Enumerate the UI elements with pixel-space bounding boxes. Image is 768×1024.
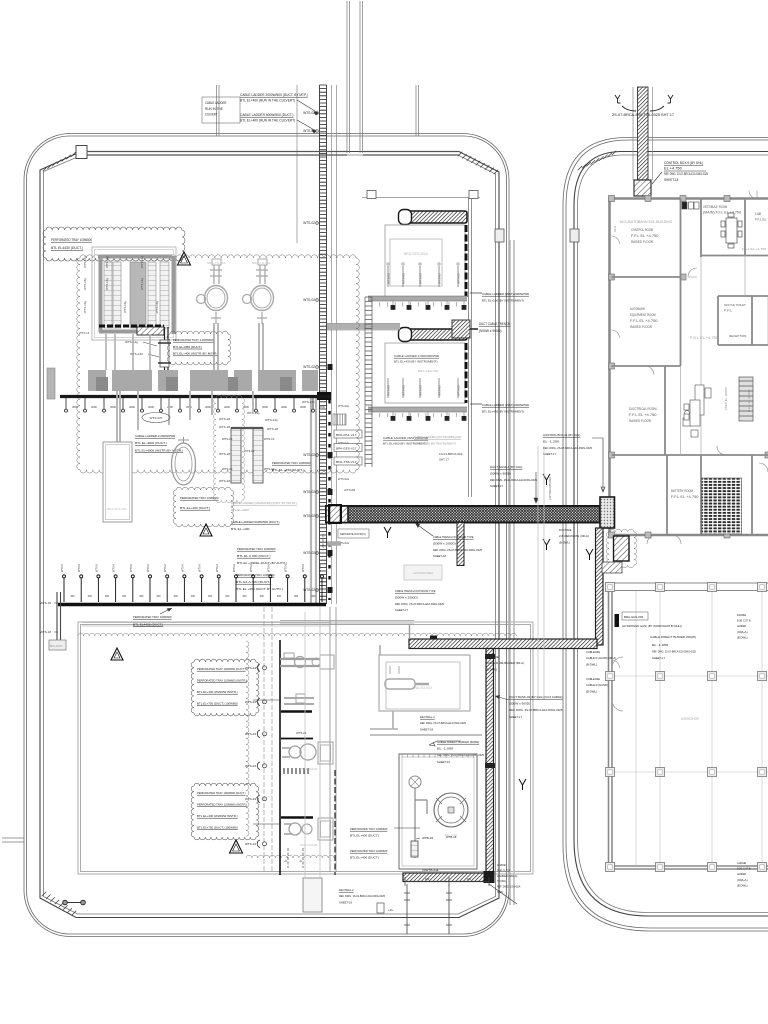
center column vertical ladder xyxy=(365,297,372,467)
svg-text:WTS-0: WTS-0 xyxy=(129,563,133,572)
svg-text:F.S.L EL +4.750: F.S.L EL +4.750 xyxy=(742,247,766,251)
svg-text:WTS-0: WTS-0 xyxy=(198,563,202,572)
svg-text:SHEET-17: SHEET-17 xyxy=(509,715,522,719)
pump assembly 4 with black bar xyxy=(281,816,313,819)
svg-text:BTL EL+100 (BY INSTRUMENT): BTL EL+100 (BY INSTRUMENT) xyxy=(482,299,524,303)
svg-text:CH/DIE: CH/DIE xyxy=(497,863,506,867)
tick row under room A tray xyxy=(372,302,457,307)
svg-text:WTS-14g: WTS-14g xyxy=(105,256,109,268)
gate approach lines xyxy=(305,612,320,878)
gray tray below room B xyxy=(368,407,467,412)
hatched ramp at workshop entry xyxy=(602,562,622,573)
gray arm right of ladder xyxy=(327,541,341,546)
svg-text:BTL EL+400 (W200/W INSTR.): BTL EL+400 (W200/W INSTR.) xyxy=(197,690,238,694)
svg-text:WTS-14p: WTS-14p xyxy=(302,400,315,404)
svg-text:H.V.A. EL. ROOM: H.V.A. EL. ROOM xyxy=(747,389,751,412)
svg-text:WTS-02: WTS-02 xyxy=(303,490,315,494)
stacked valve label boxes BPA xyxy=(334,430,362,438)
svg-text:300: 300 xyxy=(242,595,247,598)
svg-text:BTL EL A 300 (DUCT.): BTL EL A 300 (DUCT.) xyxy=(237,554,271,558)
fence post right xyxy=(495,229,504,242)
substation drops to tray band xyxy=(106,334,150,370)
svg-text:LAYDOWN AREA: LAYDOWN AREA xyxy=(413,571,433,575)
svg-text:(B DWL): (B DWL) xyxy=(737,635,748,639)
svg-text:2000: 2000 xyxy=(224,405,230,409)
pump BRA-TS-002 xyxy=(243,259,274,324)
vertical culvert lines from page top xyxy=(347,1,363,153)
room B cabinets xyxy=(387,378,391,398)
svg-text:BTL EL +400: BTL EL +400 xyxy=(231,527,250,531)
workshop interior grid lines xyxy=(612,591,768,866)
svg-text:SHEET-16: SHEET-16 xyxy=(437,760,450,764)
pond pump circle with piping xyxy=(409,776,427,858)
svg-text:SHEET-17: SHEET-17 xyxy=(652,656,665,660)
svg-text:300: 300 xyxy=(174,595,179,598)
warning triangle bottom column xyxy=(230,840,243,853)
warning triangle below cloud xyxy=(200,524,212,536)
svg-text:WTS-14d: WTS-14d xyxy=(130,352,143,356)
svg-text:2-W 500x4 (B) DWL: 2-W 500x4 (B) DWL xyxy=(548,476,552,500)
svg-text:WTS-0: WTS-0 xyxy=(301,563,305,572)
svg-text:CABLE DIRECT BURIED 200(W): CABLE DIRECT BURIED 200(W) xyxy=(650,635,696,639)
perforated tray 2-200 cloud label xyxy=(167,331,231,365)
svg-text:WTS-18: WTS-18 xyxy=(219,417,230,421)
ladder tray junction dark blob xyxy=(317,392,331,400)
hatched duct segment between rooms xyxy=(452,320,470,338)
svg-text:BTL EL +450 (DUCT.): BTL EL +450 (DUCT.) xyxy=(272,468,304,472)
cloud boundary around pump column xyxy=(246,641,249,836)
svg-text:CABLE DIRECT BURIED (600W): CABLE DIRECT BURIED (600W) xyxy=(437,740,479,744)
right fence corner hatch ticks xyxy=(578,151,616,170)
svg-text:WTS-14g: WTS-14g xyxy=(155,301,159,313)
svg-text:SHEET-18: SHEET-18 xyxy=(664,178,678,182)
svg-text:300: 300 xyxy=(70,595,75,598)
svg-text:400: 400 xyxy=(467,877,472,881)
gap roadway gray band between sites xyxy=(510,240,514,905)
svg-text:WTS-0: WTS-0 xyxy=(77,563,81,572)
svg-text:CONTROL ROOM: CONTROL ROOM xyxy=(631,228,653,232)
svg-text:BPA-PA1-V17: BPA-PA1-V17 xyxy=(336,433,357,437)
svg-text:CULVERT: CULVERT xyxy=(205,113,218,117)
room B cable ladder hatched bar xyxy=(399,328,468,342)
svg-text:2S-07-BRCA-E10-T06-0325 SHT 1: 2S-07-BRCA-E10-T06-0325 SHT 17 xyxy=(612,113,674,117)
svg-text:BTL EL+430 (BY INSTRUMENT): BTL EL+430 (BY INSTRUMENT) xyxy=(482,410,524,414)
BRA-GHS-003 labels xyxy=(622,612,648,620)
perforated tray cloud label left-low xyxy=(173,487,234,526)
svg-text:BTL EL+750 (DUCT.) 100W600: BTL EL+750 (DUCT.) 100W600 xyxy=(197,826,238,830)
svg-text:300: 300 xyxy=(191,595,196,598)
svg-text:PERFORATED TRAY 100W600: PERFORATED TRAY 100W600 xyxy=(237,547,276,551)
svg-text:WTS-02: WTS-02 xyxy=(303,129,315,133)
stairs block right edge xyxy=(739,377,753,421)
center column top line with posts xyxy=(362,197,480,199)
svg-text:WTS-0: WTS-0 xyxy=(215,563,219,572)
room A cabinets with WTS-03 labels xyxy=(387,263,391,287)
svg-text:WTS-14p: WTS-14p xyxy=(265,418,278,422)
svg-text:PERFORATED TRAY 100W600: PERFORATED TRAY 100W600 xyxy=(180,496,219,500)
main cable trench outdoor horizontal xyxy=(326,506,600,523)
svg-text:CABLE R (HAND) (3R-A): CABLE R (HAND) (3R-A) xyxy=(586,656,616,660)
substation hatched box xyxy=(137,327,164,335)
band-2 clamp mark xyxy=(430,636,437,642)
svg-text:F.F.L EL: F.F.L EL xyxy=(755,218,767,222)
svg-text:5: 5 xyxy=(299,860,303,862)
top-right hatched duct bank riser xyxy=(638,87,649,180)
perforated tray 4-line cloud label lower xyxy=(191,783,259,840)
svg-text:BRA-GES-002: BRA-GES-002 xyxy=(418,369,439,373)
svg-text:EQUIPMENT ROOM: EQUIPMENT ROOM xyxy=(630,313,656,317)
svg-text:WTS-0: WTS-0 xyxy=(112,563,116,572)
WTS-07b oval label xyxy=(142,413,170,423)
separate doors box xyxy=(338,529,369,538)
svg-text:CABLE LADDER (MIST)/2000W/500: CABLE LADDER (MIST)/2000W/500 xyxy=(482,292,529,296)
ladder heavy dash marks xyxy=(328,400,330,600)
svg-text:WTS-03: WTS-03 xyxy=(438,273,442,284)
battery room rack grid xyxy=(702,478,742,534)
vertical trench clamp marks xyxy=(485,654,495,659)
svg-text:F.F.L EL +4.750: F.F.L EL +4.750 xyxy=(629,413,657,417)
svg-text:300: 300 xyxy=(105,595,110,598)
svg-text:REF. DWG. 2S-07-BRCA-E10-DWG-0: REF. DWG. 2S-07-BRCA-E10-DWG-0325 xyxy=(652,649,696,653)
svg-text:(30A-A): (30A-A) xyxy=(737,878,748,882)
svg-text:CABLE LADDER 600W/500 (DUCT.): CABLE LADDER 600W/500 (DUCT.) xyxy=(231,520,280,524)
svg-text:(B DWL): (B DWL) xyxy=(586,662,597,666)
svg-text:CABLE TRENCH OUTDOOR TYPE: CABLE TRENCH OUTDOOR TYPE xyxy=(433,535,474,539)
svg-text:SHEET-17: SHEET-17 xyxy=(395,608,408,612)
svg-text:A/TS-06: A/TS-06 xyxy=(344,488,355,492)
drop lines below pond to boundary xyxy=(404,884,452,934)
svg-text:BATTERY ROOM: BATTERY ROOM xyxy=(671,489,693,493)
svg-text:REF. DWG. 2S-07-BRCA-E10-DWG-0: REF. DWG. 2S-07-BRCA-E10-DWG-0325 xyxy=(664,172,708,176)
svg-text:2000: 2000 xyxy=(148,405,154,409)
svg-text:CABLE TRENCH OUTDOOR TYPE: CABLE TRENCH OUTDOOR TYPE xyxy=(395,589,436,593)
svg-text:DUE CUT B: DUE CUT B xyxy=(497,868,510,872)
yard cloud line under tray xyxy=(78,633,516,636)
workshop column grid top row xyxy=(605,583,768,591)
svg-text:REF. DWG. 2S-01-BRCA-E10-DWG-0: REF. DWG. 2S-01-BRCA-E10-DWG-0325 xyxy=(490,478,537,482)
svg-text:REF. DWG. 2S-07-BRCA-E10-DWG-0: REF. DWG. 2S-07-BRCA-E10-DWG-0325 xyxy=(433,548,482,552)
svg-text:DH/DIE: DH/DIE xyxy=(737,613,746,617)
svg-text:WTS-03: WTS-03 xyxy=(402,273,406,284)
svg-text:WTS-0: WTS-0 xyxy=(94,563,98,572)
svg-text:PERFORATED TRAY 100W600: PERFORATED TRAY 100W600 xyxy=(350,849,388,853)
svg-text:WTS-24: WTS-24 xyxy=(245,732,256,736)
svg-text:BTL EL4450 (DUCT.): BTL EL4450 (DUCT.) xyxy=(173,345,202,349)
BRA-GHS-003 marker bar xyxy=(615,614,620,627)
vertical trench between junctions xyxy=(596,528,604,645)
tray band gray blocks xyxy=(88,370,106,391)
svg-text:BRA-TS-002: BRA-TS-002 xyxy=(252,261,271,265)
room BRA-SG-002 xyxy=(379,655,470,711)
gray piping left of room xyxy=(370,645,482,735)
pump drops to tray band xyxy=(214,323,263,370)
fence corner hatch ticks xyxy=(42,892,76,915)
svg-text:CABLE LADDER 2-2000W/500: CABLE LADDER 2-2000W/500 xyxy=(135,434,175,438)
laydown area box xyxy=(404,565,442,580)
center column fence lines xyxy=(469,198,472,497)
pump assembly 1 (gray) xyxy=(280,653,334,669)
fence post top-left xyxy=(76,146,87,159)
svg-text:WTS-02: WTS-02 xyxy=(303,514,315,518)
svg-text:REF. DWG. 2S-07-BRCA-E10-DWG-0: REF. DWG. 2S-07-BRCA-E10-DWG-0325 xyxy=(543,446,592,450)
vertical line x217 above site xyxy=(217,85,220,136)
svg-text:WTS-10: WTS-10 xyxy=(264,437,275,441)
svg-text:BTL EL+400 (DUCT.): BTL EL+400 (DUCT.) xyxy=(180,506,210,510)
svg-text:RAISED FLOOR: RAISED FLOOR xyxy=(630,325,652,329)
tray tick marks with circles xyxy=(65,398,315,412)
svg-text:EL -1.000: EL -1.000 xyxy=(437,747,454,751)
svg-text:61.9: 61.9 xyxy=(613,226,617,232)
south trench end cap xyxy=(484,871,495,883)
svg-text:CONTROL BOX-01 (BY DHL): CONTROL BOX-01 (BY DHL) xyxy=(543,433,580,437)
tray drops with anchor squares xyxy=(391,301,396,310)
svg-text:REF. DWG. 1S-01-BRCA-002-DWG-0: REF. DWG. 1S-01-BRCA-002-DWG-0325 xyxy=(339,894,385,898)
svg-text:2000: 2000 xyxy=(205,405,211,409)
svg-text:WTS-14g: WTS-14g xyxy=(83,278,87,290)
svg-text:GH/DHE: GH/DHE xyxy=(737,861,746,865)
svg-text:DE DWAL-4: DE DWAL-4 xyxy=(420,715,435,719)
svg-text:DUE CUT B: DUE CUT B xyxy=(737,619,751,623)
svg-text:WTB-18: WTB-18 xyxy=(422,836,433,840)
workshop walls xyxy=(605,591,768,869)
svg-text:WTS-0: WTS-0 xyxy=(180,563,184,572)
control box-04 hatched with cloud xyxy=(606,529,636,567)
door swing arcs xyxy=(612,191,768,669)
svg-text:PERFORATED TRAY 2-200W600: PERFORATED TRAY 2-200W600 xyxy=(173,338,214,342)
svg-text:BTL EL+400 (DUCT.): BTL EL+400 (DUCT.) xyxy=(350,833,379,837)
svg-text:DE DWAL-2: DE DWAL-2 xyxy=(339,888,354,892)
svg-text:PERFORATED TRAY 100W600: PERFORATED TRAY 100W600 xyxy=(236,573,275,577)
svg-text:WTS-0: WTS-0 xyxy=(284,563,288,572)
svg-text:PERFORATED TRAY 100W600: PERFORATED TRAY 100W600 xyxy=(133,615,172,619)
duct junction box-1 xyxy=(600,497,615,528)
svg-text:RECEPTION: RECEPTION xyxy=(729,334,746,338)
workshop left wall door arcs xyxy=(612,657,623,711)
svg-text:(B DWL): (B DWL) xyxy=(586,689,597,693)
svg-text:WTS-02a: WTS-02a xyxy=(338,477,350,481)
svg-text:BPA-GES-V17: BPA-GES-V17 xyxy=(336,446,357,450)
svg-text:DUCT/DIE: DUCT/DIE xyxy=(559,528,572,532)
gray line y621 from pumps to buried area xyxy=(280,621,414,625)
svg-text:CABLE LADDER 2-600/2000x500: CABLE LADDER 2-600/2000x500 xyxy=(394,354,439,358)
long perforated tray heavy line xyxy=(58,603,326,606)
main vertical cable ladder WTS-02 run xyxy=(320,85,327,604)
svg-text:(B-DWL): (B-DWL) xyxy=(559,540,570,544)
pump assembly 3 (gray circles) xyxy=(282,742,333,764)
pond small cabinet xyxy=(411,841,418,857)
control box-9 hatched xyxy=(634,180,651,196)
bottom hangers 5 xyxy=(287,848,289,868)
svg-text:(30A-A): (30A-A) xyxy=(737,630,748,634)
svg-text:WTS-03: WTS-03 xyxy=(457,273,461,284)
svg-text:WTS-07b: WTS-07b xyxy=(150,416,163,420)
svg-text:2-W 500 (B): 2-W 500 (B) xyxy=(321,534,325,548)
svg-text:PERFORATED TRAY 100W600 (DUCT.: PERFORATED TRAY 100W600 (DUCT.) xyxy=(197,791,246,795)
gray vertical drop at x409 xyxy=(409,624,411,639)
pump assembly 2 with black bar xyxy=(281,710,312,713)
svg-text:BTL EL +400/EL-DUCT (BY AUTO.): BTL EL +400/EL-DUCT (BY AUTO.) xyxy=(237,561,287,565)
svg-text:TA DWG: TA DWG xyxy=(497,879,506,883)
svg-text:2000: 2000 xyxy=(110,405,116,409)
svg-text:REF. DWG. 2S-07-BRCA-E10-DWG-0: REF. DWG. 2S-07-BRCA-E10-DWG-0325 xyxy=(509,708,563,712)
svg-text:WTS-02: WTS-02 xyxy=(303,551,315,555)
svg-text:WTS-18: WTS-18 xyxy=(267,427,278,431)
building interior thin lines xyxy=(681,255,768,455)
substation room outer xyxy=(92,247,176,340)
svg-text:F.F.L EL +4.750: F.F.L EL +4.750 xyxy=(631,234,659,238)
road stub left edge xyxy=(2,838,24,842)
svg-text:WTS-24: WTS-24 xyxy=(245,666,256,670)
svg-text:REF. DWG. 2S-07-BRCA-E13-DWG-0: REF. DWG. 2S-07-BRCA-E13-DWG-0325 xyxy=(420,721,466,725)
workshop columns xyxy=(606,583,615,592)
svg-text:2000: 2000 xyxy=(300,405,306,409)
svg-text:WTS-14g: WTS-14g xyxy=(83,301,87,313)
svg-text:(HYDROGEN GAS) (BY WORKSHOP B: (HYDROGEN GAS) (BY WORKSHOP B (DHL)) xyxy=(622,624,682,628)
svg-text:CABLE LADDER (INST/4GR8/E)/GR: CABLE LADDER (INST/4GR8/E)/GR xyxy=(414,435,462,439)
svg-text:PERFORATED TRAY 100W600 (DUCT.: PERFORATED TRAY 100W600 (DUCT.) xyxy=(197,667,246,671)
svg-text:BRA-GHS-003: BRA-GHS-003 xyxy=(624,615,644,619)
svg-text:BTL EL+400 (RUN IN THE CULVERT: BTL EL+400 (RUN IN THE CULVERT) xyxy=(240,99,295,103)
left site outer boundary (rounded) xyxy=(24,134,509,937)
main tray line xyxy=(60,395,331,398)
svg-text:5: 5 xyxy=(284,860,288,862)
svg-text:WTS-02: WTS-02 xyxy=(303,298,315,302)
svg-text:300: 300 xyxy=(88,595,93,598)
svg-text:WTS-10: WTS-10 xyxy=(222,467,233,471)
svg-text:BTL EL+400 (INSTR./BY MSTR.): BTL EL+400 (INSTR./BY MSTR.) xyxy=(173,352,218,356)
svg-text:VESTIBULE ROOM: VESTIBULE ROOM xyxy=(703,205,727,209)
svg-text:2000: 2000 xyxy=(91,405,97,409)
svg-text:CABLE R DIE BURIED (3R-A): CABLE R DIE BURIED (3R-A) xyxy=(486,661,524,665)
svg-text:WTS-18: WTS-18 xyxy=(40,630,51,634)
svg-text:WTS-14: WTS-14 xyxy=(79,331,90,335)
long tray left end fittings xyxy=(57,592,61,640)
gap thin verticals near duct bank xyxy=(538,446,544,700)
svg-text:CABLE LADDER 2000W/500 (DUCT.: CABLE LADDER 2000W/500 (DUCT. BY MTP.) xyxy=(240,93,308,97)
building outer walls xyxy=(610,199,768,536)
svg-text:SHEET-18: SHEET-18 xyxy=(433,554,446,558)
svg-text:300: 300 xyxy=(139,595,144,598)
svg-text:BTL EL+400 (RUN IN THE CULVERT: BTL EL+400 (RUN IN THE CULVERT) xyxy=(240,119,295,123)
building internal walls xyxy=(612,199,768,536)
long vertical trench to south xyxy=(486,649,494,874)
svg-text:2000: 2000 xyxy=(129,405,135,409)
svg-text:(500W x 900D): (500W x 900D) xyxy=(479,329,502,333)
svg-text:CABLE R (HAND): CABLE R (HAND) xyxy=(586,683,608,687)
svg-text:HANDED: HANDED xyxy=(737,624,746,628)
svg-text:WTS-14g: WTS-14g xyxy=(83,256,87,268)
svg-text:HANDED (30A-A): HANDED (30A-A) xyxy=(497,874,517,878)
svg-text:WTS-0: WTS-0 xyxy=(249,563,253,572)
svg-text:WTS-24: WTS-24 xyxy=(245,797,256,801)
tray band left end cap xyxy=(47,368,55,399)
svg-text:0325: 0325 xyxy=(497,890,503,894)
svg-text:WTS-10: WTS-10 xyxy=(222,437,233,441)
svg-text:PREP. EL. ROOM: PREP. EL. ROOM xyxy=(724,387,728,410)
svg-text:BTL EL+400 (W200/W INSTR.): BTL EL+400 (W200/W INSTR.) xyxy=(197,814,238,818)
long tray tick marks upward xyxy=(63,575,324,602)
svg-text:WTB-18: WTB-18 xyxy=(446,835,457,839)
svg-text:BRA-P-003A/B: BRA-P-003A/B xyxy=(300,767,318,771)
vertical line x417 xyxy=(416,85,419,136)
svg-text:BTL EL4980 (BY INSTRUMENT): BTL EL4980 (BY INSTRUMENT) xyxy=(414,441,456,445)
svg-text:400: 400 xyxy=(425,877,430,881)
svg-text:WTS-24: WTS-24 xyxy=(245,700,256,704)
svg-text:WTS-24: WTS-24 xyxy=(245,764,256,768)
revision cloud around tray label xyxy=(43,227,185,261)
svg-text:1S-01-BRCA-002: 1S-01-BRCA-002 xyxy=(439,452,463,456)
cable ladder run-in-culvert note box xyxy=(202,97,240,123)
small box BRA-PG03 xyxy=(49,640,66,650)
svg-text:(500W x 1000D): (500W x 1000D) xyxy=(433,541,456,545)
hatch tick row below pump 3 xyxy=(284,768,308,774)
svg-text:EL -1.250: EL -1.250 xyxy=(543,439,560,443)
perforated tray 4-line cloud label upper xyxy=(191,659,259,716)
svg-text:WTS-0: WTS-0 xyxy=(163,563,167,572)
svg-text:SHT 17: SHT 17 xyxy=(439,457,449,461)
svg-text:2-B RED/GATE (3R-A): 2-B RED/GATE (3R-A) xyxy=(559,534,589,538)
tank rect BRA-WTP-003 xyxy=(103,442,132,522)
substation black dashed band xyxy=(99,325,164,328)
svg-text:300: 300 xyxy=(156,595,161,598)
svg-text:WTS-03: WTS-03 xyxy=(387,273,391,284)
duct bank match-line symbols Y xyxy=(615,95,673,111)
svg-text:2000: 2000 xyxy=(167,405,173,409)
pump BRA-TS-001 xyxy=(197,259,228,324)
svg-text:WTS-18: WTS-18 xyxy=(219,452,230,456)
svg-text:OFFICE TOILET: OFFICE TOILET xyxy=(724,303,746,307)
svg-text:WTS-03: WTS-03 xyxy=(419,385,423,396)
electrical room furniture xyxy=(683,385,711,426)
svg-text:SHEET-18: SHEET-18 xyxy=(420,727,433,731)
svg-text:(B DWL): (B DWL) xyxy=(486,667,497,671)
svg-text:WTS-03: WTS-03 xyxy=(387,385,391,396)
svg-text:2000: 2000 xyxy=(319,405,325,409)
svg-text:300: 300 xyxy=(294,595,299,598)
svg-text:WTS-14g: WTS-14g xyxy=(140,256,144,268)
svg-text:CABLE/DIE: CABLE/DIE xyxy=(586,650,600,654)
svg-text:REF. DWG. 2S-07-BRCA-E10-DWG-0: REF. DWG. 2S-07-BRCA-E10-DWG-0325 xyxy=(395,602,444,606)
gray tray crossing below room A xyxy=(368,296,467,301)
right fence post xyxy=(570,229,579,242)
meeting table and chairs xyxy=(721,213,742,248)
svg-text:+D+: +D+ xyxy=(388,908,394,912)
svg-text:BRA-TS-001: BRA-TS-001 xyxy=(207,261,226,265)
svg-text:PERFORATED TRAY 100W600 (INSTR: PERFORATED TRAY 100W600 (INSTR.) xyxy=(197,679,247,683)
top road thick double line xyxy=(87,152,459,156)
svg-text:CABLE LADDER (INST)/2000W/500: CABLE LADDER (INST)/2000W/500 xyxy=(482,403,529,407)
svg-text:BTL EL-4000 (DUCT.): BTL EL-4000 (DUCT.) xyxy=(135,441,167,445)
svg-text:F.F.L: F.F.L xyxy=(724,309,733,313)
svg-text:(500W x 900D): (500W x 900D) xyxy=(490,471,511,475)
room B outline xyxy=(385,343,465,403)
left site inner yard rectangle xyxy=(78,622,533,874)
svg-text:BTL EL A 300 (DUCT.): BTL EL A 300 (DUCT.) xyxy=(236,580,271,584)
svg-text:RAISED FLOOR: RAISED FLOOR xyxy=(631,240,653,244)
svg-text:WTS-03: WTS-03 xyxy=(457,385,461,396)
revision cloud around equipment area xyxy=(77,255,359,473)
svg-text:WTS-0: WTS-0 xyxy=(266,563,270,572)
svg-text:300: 300 xyxy=(260,595,265,598)
svg-text:F.S.L EL +4.750: F.S.L EL +4.750 xyxy=(690,336,718,340)
svg-text:SHEET-17: SHEET-17 xyxy=(490,484,503,488)
svg-text:(B DWL): (B DWL) xyxy=(737,883,748,887)
svg-text:ELECTRICAL ROOM: ELECTRICAL ROOM xyxy=(629,407,657,411)
svg-text:CABLE LADDER: CABLE LADDER xyxy=(205,101,227,105)
svg-text:F.F.L EL +4.750: F.F.L EL +4.750 xyxy=(671,495,699,499)
pond top edge tick marks xyxy=(402,754,474,758)
svg-text:EL +4.750: EL +4.750 xyxy=(664,167,682,171)
